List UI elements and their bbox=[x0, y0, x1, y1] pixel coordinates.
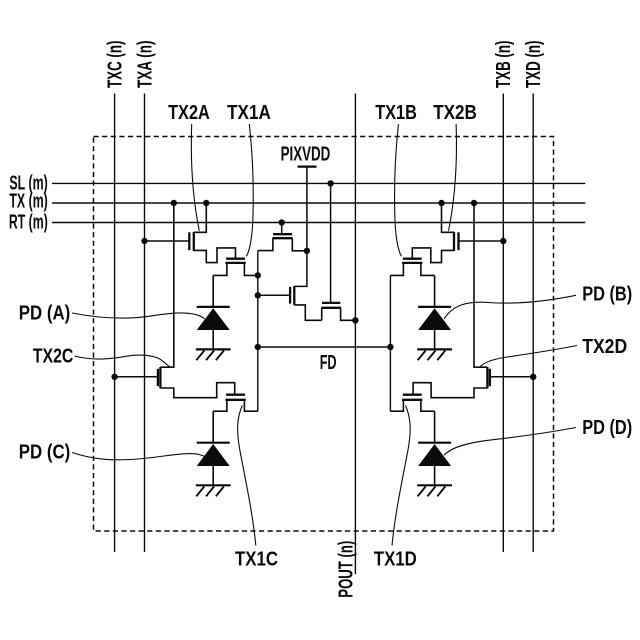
svg-text:TX (m): TX (m) bbox=[9, 190, 47, 212]
svg-text:TX2A: TX2A bbox=[168, 102, 210, 124]
ground PD(C) bar bbox=[196, 484, 231, 486]
node dot TX2D gate on TXD(n) bbox=[530, 374, 536, 380]
svg-text:PD (B): PD (B) bbox=[582, 284, 632, 306]
ground PD(B) hatches bbox=[418, 351, 446, 361]
transistor TX2A gate bar bbox=[188, 232, 190, 250]
photodiode PD(A) cathode bar bbox=[197, 306, 230, 308]
wire RST source to FD bbox=[258, 238, 273, 250]
wire TX1C source to PD(C) bbox=[213, 400, 227, 411]
node dot SF gate on FD bbox=[255, 292, 261, 298]
photodiode PD(B) triangle bbox=[418, 308, 451, 330]
wire SEL gate lead from SL(m) bbox=[330, 183, 332, 302]
power PIXVDD supply bar bbox=[298, 166, 317, 168]
transistor SEL channel bar bbox=[321, 307, 341, 309]
ground PD(B) bar bbox=[417, 348, 452, 350]
label pointer TX1A bbox=[246, 124, 253, 256]
photodiode PD(C) triangle bbox=[197, 444, 230, 466]
transistor TX1D gate bar bbox=[403, 394, 422, 396]
wire TX2D drain to TX(m) bbox=[474, 203, 487, 367]
node dot TX1A drain on FD bbox=[255, 272, 261, 278]
svg-text:TXA (n): TXA (n) bbox=[134, 41, 156, 89]
transistor TX1A channel bar bbox=[225, 262, 245, 264]
wire PD(D) anode lead bbox=[434, 466, 436, 484]
svg-text:TX1B: TX1B bbox=[375, 102, 417, 124]
transistor TX1B channel bar bbox=[402, 262, 422, 264]
svg-text:TX2C: TX2C bbox=[33, 346, 74, 368]
wire SEL left terminal bbox=[321, 308, 323, 321]
transistor SF gate bar bbox=[289, 287, 291, 304]
svg-text:TX2B: TX2B bbox=[433, 102, 477, 124]
svg-text:PIXVDD: PIXVDD bbox=[281, 144, 331, 166]
label pointer TX1D bbox=[392, 406, 410, 546]
wire POUT(n) column line bbox=[354, 94, 356, 575]
transistor SF channel bar bbox=[293, 286, 295, 305]
wire TX1A source to PD(A) bbox=[213, 263, 227, 276]
wire RT(m) row line bbox=[52, 222, 585, 224]
transistor TX1A gate bar bbox=[226, 258, 245, 260]
wire TX2A source to TX1A gate bbox=[194, 248, 236, 263]
wire SL(m) row line bbox=[52, 182, 585, 184]
node dot TX2D drain on TX(m) bbox=[471, 200, 477, 206]
transistor TX1C channel bar bbox=[225, 399, 245, 401]
wire TX2B drain to TX(m) bbox=[442, 203, 455, 232]
svg-text:RT (m): RT (m) bbox=[9, 212, 48, 234]
wire SF gate lead from FD bbox=[258, 294, 290, 296]
wire RST drain to PIXVDD bbox=[292, 238, 307, 251]
node dot TX2B drain on TX(m) bbox=[438, 200, 444, 206]
transistor TX2C channel bar bbox=[159, 367, 161, 388]
node dot SEL drain on POUT(n) bbox=[352, 317, 358, 323]
wire TX2C source to TX1C gate bbox=[160, 383, 234, 398]
transistor TX1B gate bar bbox=[403, 258, 422, 260]
wire FD right vertical bbox=[389, 275, 391, 411]
wire TXB(n) column line bbox=[502, 94, 504, 553]
wire PIXVDD feed to reset drain and SF drain bbox=[294, 167, 307, 287]
photodiode PD(A) triangle bbox=[197, 308, 230, 330]
transistor TX2D channel bar bbox=[486, 367, 488, 388]
transistor RST channel bar bbox=[272, 237, 292, 239]
wire TX(m) row line bbox=[52, 202, 585, 204]
wire SEL right terminal to POUT bbox=[341, 308, 356, 321]
transistor TX1D channel bar bbox=[402, 399, 422, 401]
wire TX2B gate lead from TXB(n) bbox=[459, 240, 504, 242]
node dot TX2A gate on TXA(n) bbox=[141, 238, 147, 244]
svg-text:TX2D: TX2D bbox=[582, 336, 627, 358]
wire PD(B) anode lead bbox=[434, 330, 436, 349]
svg-text:TX1C: TX1C bbox=[235, 549, 278, 571]
dashed pixel boundary box bbox=[94, 137, 554, 532]
wire PD(B) cathode lead bbox=[434, 275, 436, 307]
label pointer TX2C bbox=[75, 355, 171, 367]
label pointer TX2A bbox=[191, 124, 199, 231]
wire PD(C) cathode lead bbox=[212, 411, 214, 443]
wire TX1B source to PD(B) bbox=[421, 263, 435, 276]
wire TX1A drain to FD bbox=[244, 263, 257, 276]
node dot TX2C gate on TXC(n) bbox=[111, 374, 117, 380]
ground PD(C) hatches bbox=[196, 487, 224, 497]
transistor TX2A channel bar bbox=[193, 232, 195, 251]
transistor RST gate bar bbox=[273, 233, 292, 235]
transistor TX2B channel bar bbox=[453, 232, 455, 251]
node dot RST drain on PIXVDD bbox=[304, 248, 310, 254]
label pointer TX1B bbox=[395, 124, 402, 256]
node FD rail right junction bbox=[387, 344, 393, 350]
transistor RST gate lead from RT(m) bbox=[281, 223, 283, 234]
wire TX2D gate lead from TXD(n) bbox=[490, 376, 533, 378]
wire TXA(n) column line bbox=[144, 94, 146, 553]
svg-text:TX1A: TX1A bbox=[227, 102, 271, 124]
wire TX2D source to TX1D gate bbox=[413, 383, 487, 398]
wire TX1D source to PD(D) bbox=[421, 400, 435, 411]
node dot SEL gate on SL(m) bbox=[327, 180, 333, 186]
wire TX1C drain to FD bbox=[244, 400, 257, 411]
svg-text:PD (A): PD (A) bbox=[19, 302, 71, 324]
transistor TX1C gate bar bbox=[226, 394, 245, 396]
photodiode PD(C) cathode bar bbox=[197, 442, 230, 444]
photodiode PD(D) triangle bbox=[418, 444, 451, 466]
label pointer TX2B bbox=[449, 124, 457, 231]
node FD rail left junction bbox=[255, 344, 261, 350]
svg-text:TXC (n): TXC (n) bbox=[104, 41, 126, 88]
ground PD(A) bar bbox=[196, 348, 231, 350]
ground PD(D) bar bbox=[417, 484, 452, 486]
node dot TX2A drain on TX(m) bbox=[203, 200, 209, 206]
svg-text:FD: FD bbox=[320, 352, 337, 374]
wire FD left vertical bbox=[257, 251, 259, 412]
transistor TX2D gate bar bbox=[489, 369, 491, 386]
transistor TX2C gate bar bbox=[157, 369, 159, 386]
label pointer PD(C) bbox=[72, 453, 206, 460]
wire TX2B source to TX1B gate bbox=[412, 248, 454, 263]
wire PD(D) cathode lead bbox=[434, 411, 436, 443]
wire TX2A gate lead from TXA(n) bbox=[145, 240, 190, 242]
label pointer PD(A) bbox=[72, 313, 205, 319]
wire PD(A) anode lead bbox=[212, 330, 214, 349]
ground PD(A) hatches bbox=[196, 351, 224, 361]
label pointer PD(B) bbox=[444, 295, 576, 319]
wire PD(C) anode lead bbox=[212, 466, 214, 484]
wire PD(A) cathode lead bbox=[212, 275, 214, 307]
svg-text:POUT (n): POUT (n) bbox=[336, 541, 358, 598]
svg-text:TXB (n): TXB (n) bbox=[493, 41, 515, 88]
wire TX1B drain to FD bbox=[390, 263, 403, 276]
svg-text:TXD (n): TXD (n) bbox=[523, 41, 545, 89]
label pointer TX2D bbox=[480, 346, 577, 367]
wire FD horizontal rail bbox=[258, 346, 391, 348]
svg-text:PD (D): PD (D) bbox=[582, 417, 632, 439]
wire TX1D drain to FD bbox=[390, 400, 403, 411]
transistor SEL gate bar bbox=[322, 302, 340, 304]
node dot TX2B gate on TXB(n) bbox=[500, 238, 506, 244]
transistor TX2B gate bar bbox=[457, 232, 459, 250]
wire TXC(n) column line bbox=[114, 94, 116, 553]
label pointer PD(D) bbox=[444, 428, 576, 456]
wire SF source to SEL bbox=[294, 305, 321, 320]
wire TX2A drain to TX(m) bbox=[194, 203, 207, 232]
svg-text:TX1D: TX1D bbox=[374, 549, 417, 571]
label pointer TX1C bbox=[238, 406, 256, 546]
ground PD(D) hatches bbox=[418, 487, 446, 497]
node dot TX2C drain on TX(m) bbox=[171, 200, 177, 206]
photodiode PD(D) cathode bar bbox=[418, 442, 451, 444]
wire TX2C drain to TX(m) bbox=[160, 203, 173, 367]
node dot RST gate on RT(m) bbox=[279, 219, 285, 225]
wire TX2C gate lead from TXC(n) bbox=[115, 376, 158, 378]
svg-text:PD (C): PD (C) bbox=[19, 441, 71, 463]
wire TXD(n) column line bbox=[532, 94, 534, 553]
photodiode PD(B) cathode bar bbox=[418, 306, 451, 308]
